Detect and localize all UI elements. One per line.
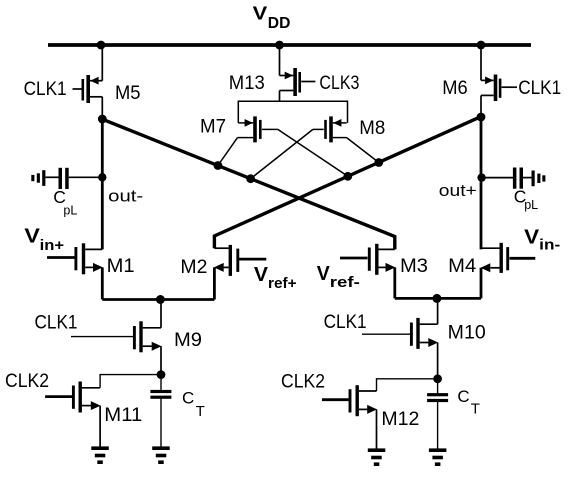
node rail-right xyxy=(477,41,486,50)
transistor M5 xyxy=(73,75,103,119)
svg-text:in+: in+ xyxy=(40,237,65,254)
svg-text:V: V xyxy=(317,263,331,285)
VDD rail xyxy=(48,43,531,47)
wire out+ diagonal (M6 drain to M2 drain) xyxy=(214,117,481,249)
wire M1-M2 common source xyxy=(102,298,214,301)
svg-text:CLK2: CLK2 xyxy=(5,371,49,392)
node out- xyxy=(98,173,106,181)
capacitor CT (right) xyxy=(437,379,439,449)
svg-text:M6: M6 xyxy=(442,78,468,99)
wire M6 source to rail xyxy=(480,46,482,80)
transistor M9 xyxy=(71,300,161,375)
node M6 drain xyxy=(477,113,486,122)
wire out- diagonal (M5 drain to M3 drain) xyxy=(102,119,395,249)
svg-text:M1: M1 xyxy=(107,256,135,277)
wire M8 gate to out- diagonal xyxy=(251,129,313,178)
transistor M1 xyxy=(47,243,102,299)
svg-text:out-: out- xyxy=(108,187,143,206)
wire M3-M4 common source xyxy=(395,297,481,300)
capacitor CT (left) xyxy=(160,375,162,447)
label Vref+ xyxy=(254,264,297,292)
label CT (left) xyxy=(182,388,205,420)
svg-text:DD: DD xyxy=(268,15,291,32)
transistor M2 xyxy=(214,245,266,300)
svg-text:out+: out+ xyxy=(439,181,477,200)
transistor M13 xyxy=(280,68,316,101)
node rail-mid xyxy=(275,41,284,50)
capacitor CpL (left) xyxy=(45,176,102,178)
svg-text:CLK1: CLK1 xyxy=(324,312,367,333)
svg-text:CLK2: CLK2 xyxy=(281,372,325,393)
wire M11 drain to CT node xyxy=(100,375,161,388)
label Vin+ xyxy=(24,226,64,255)
transistor M12 xyxy=(322,385,377,448)
transistor M8 xyxy=(313,116,347,142)
svg-text:M11: M11 xyxy=(104,405,142,426)
transistor M4 xyxy=(481,243,535,299)
wire out- vertical xyxy=(101,119,104,249)
svg-text:pL: pL xyxy=(524,198,538,212)
node CT right xyxy=(433,374,442,383)
svg-text:M9: M9 xyxy=(174,330,202,351)
label Vref- xyxy=(317,263,360,291)
wire M12 drain to CT node xyxy=(377,379,438,391)
svg-text:C: C xyxy=(457,387,469,406)
wire M8 drain to out+ diagonal xyxy=(347,138,379,163)
svg-text:M13: M13 xyxy=(229,73,265,94)
wire M7 drain to out- diagonal xyxy=(218,138,238,166)
svg-text:T: T xyxy=(471,401,480,418)
svg-text:ref+: ref+ xyxy=(268,275,297,292)
node diag4 xyxy=(374,158,383,167)
node diag1 xyxy=(214,161,223,170)
svg-text:CLK3: CLK3 xyxy=(319,73,359,94)
svg-text:M10: M10 xyxy=(448,323,486,344)
ground (M11) xyxy=(91,446,109,464)
transistor M3 xyxy=(340,244,395,299)
ground (M12) xyxy=(368,448,386,466)
label Vin- xyxy=(524,227,560,254)
transistor M11 xyxy=(45,382,100,447)
svg-text:CLK1: CLK1 xyxy=(24,79,67,100)
svg-text:M7: M7 xyxy=(200,117,226,138)
node diag3 xyxy=(343,172,352,181)
node tail left xyxy=(156,295,165,304)
svg-text:V: V xyxy=(254,264,269,286)
wire M7 gate to out+ diagonal xyxy=(278,129,348,176)
transistor M10 xyxy=(362,298,438,378)
node tail right xyxy=(432,294,441,303)
node out+ xyxy=(477,173,485,181)
capacitor CpL (right) xyxy=(482,177,532,179)
svg-text:CLK1: CLK1 xyxy=(35,313,78,334)
svg-text:M4: M4 xyxy=(448,256,476,277)
node CT left xyxy=(157,370,166,379)
label CpL (left) xyxy=(53,187,77,218)
svg-text:M8: M8 xyxy=(359,118,385,139)
node diag2 xyxy=(246,174,255,183)
wire M13 source to rail xyxy=(279,46,281,76)
svg-text:M5: M5 xyxy=(115,83,141,104)
svg-text:CLK1: CLK1 xyxy=(518,78,561,99)
svg-text:M2: M2 xyxy=(180,257,207,278)
wire M5 source to rail xyxy=(101,46,103,81)
svg-text:V: V xyxy=(524,227,540,249)
wire M7-M8 source bus xyxy=(238,101,347,123)
svg-text:T: T xyxy=(196,403,205,420)
transistor M6 xyxy=(481,75,517,117)
svg-text:M3: M3 xyxy=(400,256,428,277)
label CT (right) xyxy=(457,387,480,417)
label VDD xyxy=(253,4,291,33)
svg-text:ref-: ref- xyxy=(330,274,360,291)
svg-text:C: C xyxy=(182,388,194,407)
svg-text:in-: in- xyxy=(539,237,560,254)
transistor M7 xyxy=(238,116,278,142)
label CpL (right) xyxy=(514,187,538,213)
wire out+ vertical xyxy=(480,117,483,249)
svg-text:V: V xyxy=(253,4,268,24)
svg-text:pL: pL xyxy=(63,204,77,218)
node rail-left xyxy=(97,41,106,50)
ground (CT right) xyxy=(429,448,447,466)
node M5 drain xyxy=(98,115,107,124)
svg-text:M12: M12 xyxy=(381,409,419,430)
ground (CT left) xyxy=(152,446,170,464)
svg-text:V: V xyxy=(24,226,40,248)
